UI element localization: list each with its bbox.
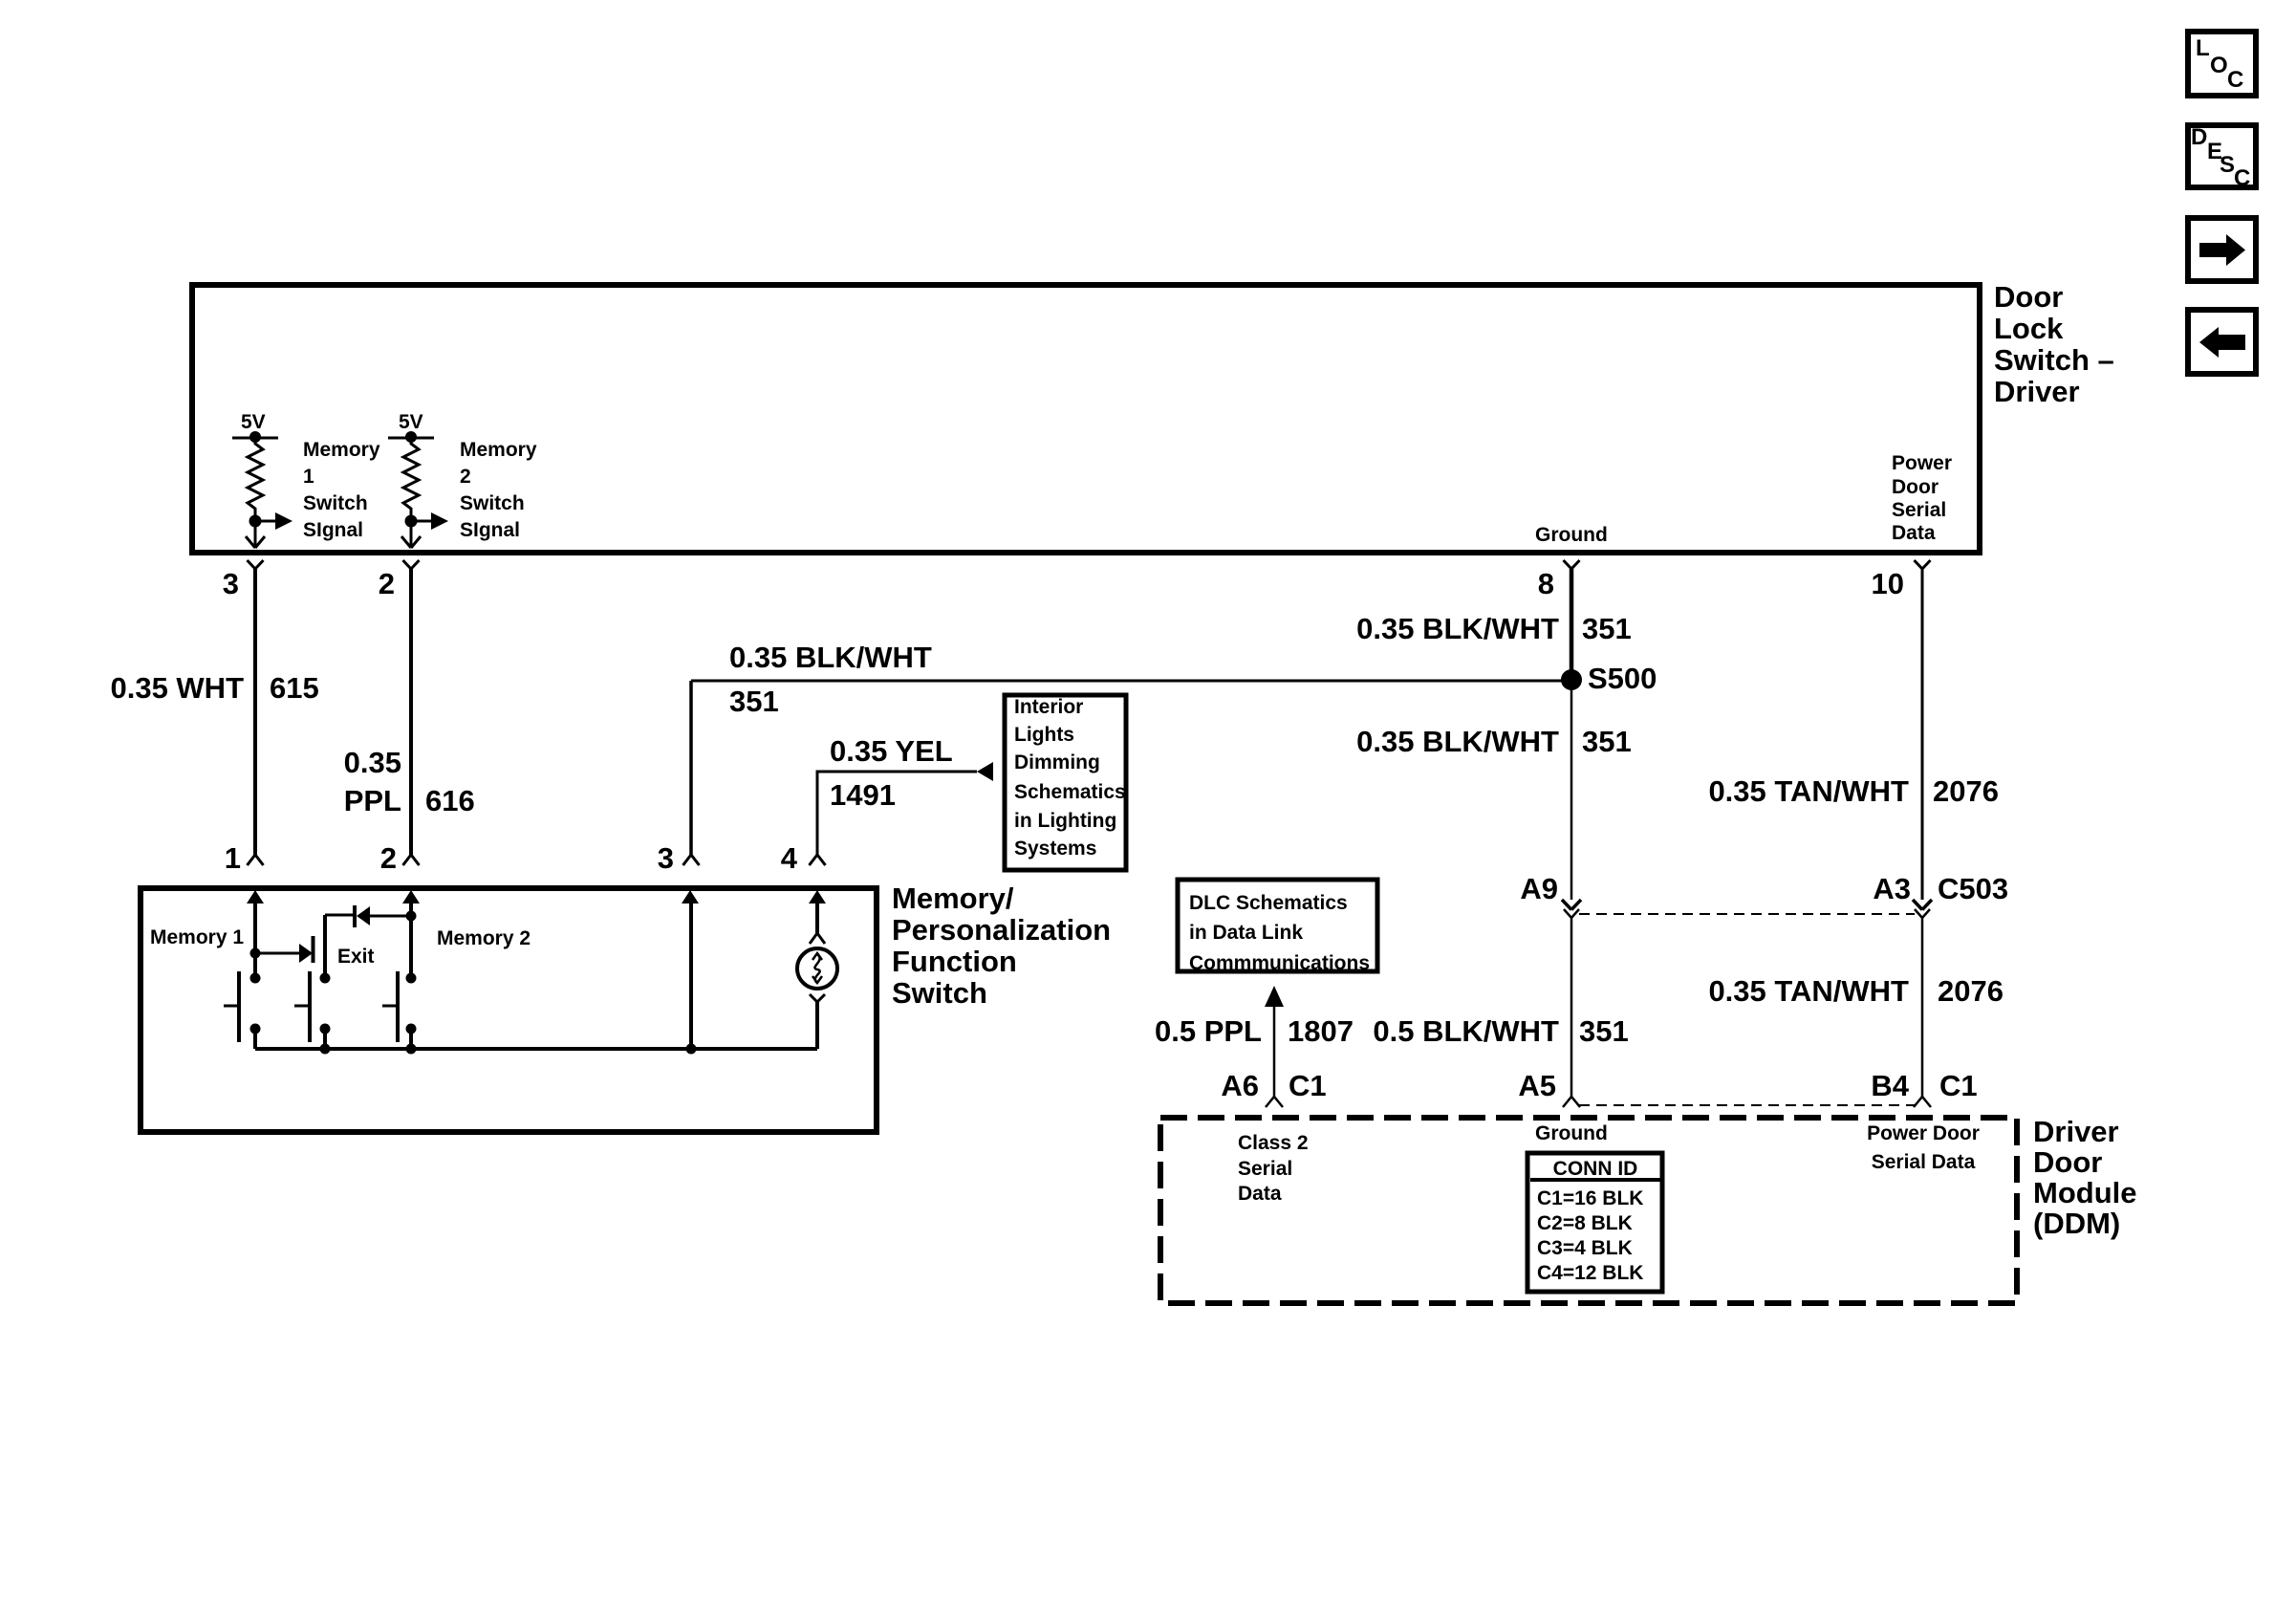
svg-text:2: 2 [380, 841, 397, 875]
svg-text:Driver: Driver [1994, 375, 2080, 408]
svg-text:0.35 YEL: 0.35 YEL [830, 734, 953, 768]
svg-text:0.35: 0.35 [344, 746, 401, 779]
svg-text:DLC Schematics: DLC Schematics [1189, 892, 1348, 914]
svg-text:Systems: Systems [1014, 838, 1096, 860]
svg-text:Switch: Switch [892, 976, 987, 1010]
svg-text:0.35 BLK/WHT: 0.35 BLK/WHT [729, 641, 932, 674]
svg-text:C3=4 BLK: C3=4 BLK [1537, 1237, 1633, 1259]
svg-text:3: 3 [223, 567, 239, 600]
svg-text:Memory/: Memory/ [892, 882, 1014, 915]
svg-text:Power Door: Power Door [1867, 1122, 1980, 1144]
svg-text:SIgnal: SIgnal [460, 519, 520, 541]
svg-text:O: O [2210, 53, 2228, 78]
svg-text:2: 2 [460, 466, 471, 488]
svg-text:0.35 BLK/WHT: 0.35 BLK/WHT [1356, 725, 1559, 758]
svg-text:Class 2: Class 2 [1238, 1132, 1309, 1154]
svg-text:Dimming: Dimming [1014, 751, 1100, 773]
svg-text:1491: 1491 [830, 778, 896, 812]
svg-text:1807: 1807 [1288, 1014, 1354, 1048]
svg-text:351: 351 [1582, 725, 1632, 758]
svg-text:S: S [2220, 152, 2235, 178]
svg-text:8: 8 [1538, 567, 1554, 600]
svg-text:D: D [2191, 124, 2207, 150]
svg-text:Switch –: Switch – [1994, 343, 2114, 377]
svg-text:Ground: Ground [1535, 524, 1608, 546]
svg-text:Interior: Interior [1014, 696, 1083, 718]
svg-text:Door: Door [1892, 476, 1939, 498]
svg-text:2076: 2076 [1933, 774, 1999, 808]
svg-text:Memory 1: Memory 1 [150, 926, 244, 948]
svg-text:5V: 5V [241, 411, 266, 433]
svg-text:C: C [2234, 165, 2250, 191]
svg-text:A3: A3 [1873, 872, 1911, 905]
svg-text:Module: Module [2033, 1176, 2137, 1209]
svg-text:3: 3 [658, 841, 674, 875]
svg-text:C1=16 BLK: C1=16 BLK [1537, 1187, 1643, 1209]
svg-text:Commmunications: Commmunications [1189, 952, 1370, 974]
svg-text:Memory 2: Memory 2 [437, 927, 531, 949]
svg-text:10: 10 [1872, 567, 1904, 600]
svg-text:Switch: Switch [303, 492, 368, 514]
svg-text:CONN ID: CONN ID [1553, 1158, 1638, 1180]
svg-text:Memory: Memory [303, 439, 380, 461]
svg-text:2: 2 [379, 567, 395, 600]
svg-text:351: 351 [1582, 612, 1632, 645]
svg-text:Driver: Driver [2033, 1115, 2119, 1148]
svg-text:SIgnal: SIgnal [303, 519, 363, 541]
svg-text:Ground: Ground [1535, 1122, 1608, 1144]
svg-text:0.35 WHT: 0.35 WHT [110, 671, 244, 705]
svg-text:Door: Door [2033, 1145, 2102, 1179]
svg-text:C1: C1 [1289, 1069, 1327, 1102]
svg-text:(DDM): (DDM) [2033, 1207, 2120, 1240]
svg-text:B4: B4 [1871, 1069, 1909, 1102]
svg-text:Lock: Lock [1994, 312, 2064, 345]
svg-text:Function: Function [892, 945, 1017, 978]
svg-text:C2=8 BLK: C2=8 BLK [1537, 1212, 1633, 1234]
svg-text:Exit: Exit [337, 946, 375, 968]
svg-text:in Data Link: in Data Link [1189, 922, 1303, 944]
svg-text:Serial Data: Serial Data [1872, 1151, 1976, 1173]
svg-text:C1: C1 [1939, 1069, 1978, 1102]
svg-text:0.35 BLK/WHT: 0.35 BLK/WHT [1356, 612, 1559, 645]
svg-text:351: 351 [1579, 1014, 1629, 1048]
svg-text:Serial: Serial [1892, 499, 1946, 521]
svg-text:A9: A9 [1520, 872, 1558, 905]
svg-text:351: 351 [729, 685, 779, 718]
svg-text:Data: Data [1238, 1183, 1282, 1205]
svg-text:616: 616 [425, 784, 475, 817]
svg-text:S500: S500 [1588, 662, 1657, 695]
svg-text:1: 1 [225, 841, 241, 875]
svg-text:2076: 2076 [1938, 974, 2004, 1008]
svg-text:PPL: PPL [344, 784, 401, 817]
svg-text:Serial: Serial [1238, 1158, 1292, 1180]
svg-text:0.35 TAN/WHT: 0.35 TAN/WHT [1708, 974, 1909, 1008]
svg-text:0.35 TAN/WHT: 0.35 TAN/WHT [1708, 774, 1909, 808]
svg-text:Data: Data [1892, 522, 1936, 544]
svg-text:C503: C503 [1938, 872, 2008, 905]
svg-text:A6: A6 [1221, 1069, 1259, 1102]
svg-text:A5: A5 [1518, 1069, 1556, 1102]
svg-text:C4=12 BLK: C4=12 BLK [1537, 1262, 1643, 1284]
svg-text:615: 615 [270, 671, 319, 705]
svg-text:4: 4 [781, 841, 798, 875]
svg-text:L: L [2196, 35, 2210, 61]
svg-text:in Lighting: in Lighting [1014, 810, 1116, 832]
svg-text:Personalization: Personalization [892, 913, 1111, 947]
svg-text:0.5 PPL: 0.5 PPL [1155, 1014, 1262, 1048]
svg-text:C: C [2227, 67, 2243, 93]
svg-text:Lights: Lights [1014, 724, 1074, 746]
svg-text:0.5 BLK/WHT: 0.5 BLK/WHT [1373, 1014, 1559, 1048]
svg-text:1: 1 [303, 466, 314, 488]
svg-text:Switch: Switch [460, 492, 525, 514]
svg-text:Schematics: Schematics [1014, 781, 1126, 803]
svg-text:Door: Door [1994, 280, 2063, 314]
svg-text:Power: Power [1892, 452, 1952, 474]
svg-text:Memory: Memory [460, 439, 537, 461]
svg-text:5V: 5V [399, 411, 423, 433]
